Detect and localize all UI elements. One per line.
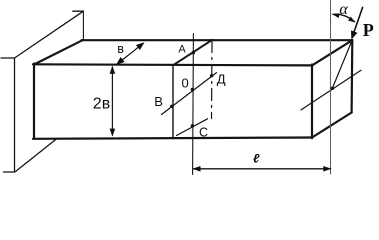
arrowhead 2b top	[110, 66, 116, 74]
angle alpha arc	[333, 14, 355, 21]
svg-text:ℓ: ℓ	[253, 151, 260, 165]
section back hidden edge (dash-dot)	[211, 41, 214, 119]
beam front top edge	[33, 64, 312, 65]
section front vertical trace	[172, 65, 174, 138]
beam front left edge	[33, 64, 35, 139]
wall top diagonal	[15, 11, 84, 58]
section vertical axis / left extension line	[192, 34, 195, 175]
point C dot	[191, 124, 194, 127]
wall left vertical	[14, 58, 16, 172]
section bottom diagonal trace	[177, 119, 208, 136]
svg-text:Д: Д	[217, 71, 226, 86]
beam bottom-right diagonal edge	[312, 113, 352, 138]
svg-text:в: в	[117, 42, 124, 56]
centroid dot right face	[331, 87, 334, 90]
arrowhead alpha arc left	[332, 13, 339, 18]
wall top tick	[73, 10, 84, 12]
arrowhead alpha arc right	[348, 17, 355, 23]
dimension l line	[194, 168, 331, 170]
wall top-left tick	[1, 57, 15, 59]
point B dot	[170, 105, 173, 108]
dimension b arrow line (top face)	[118, 44, 144, 64]
arrowhead l left	[193, 166, 201, 172]
beam back top edge	[82, 39, 353, 41]
svg-text:0: 0	[182, 76, 189, 91]
arrowhead l right	[323, 166, 331, 172]
dimension 2b arrow line	[111, 67, 113, 135]
beam back right edge	[351, 40, 354, 112]
force P shaft	[353, 7, 363, 36]
wall back vertical	[82, 11, 84, 39]
wall bottom diagonal	[16, 139, 58, 172]
arrowhead 2b bottom	[110, 129, 116, 137]
right face depth axis	[301, 70, 361, 110]
beam front bottom edge	[33, 138, 312, 139]
beam top-left diagonal edge	[34, 40, 83, 64]
beam front right edge	[311, 65, 313, 139]
svg-text:α: α	[339, 1, 348, 18]
svg-text:Р: Р	[363, 20, 374, 40]
section horizontal axis B-D	[162, 73, 217, 115]
svg-text:2в: 2в	[93, 96, 110, 113]
point A dot	[192, 51, 195, 54]
P line of action to centroid	[332, 41, 352, 89]
svg-text:B: B	[154, 94, 163, 109]
svg-text:C: C	[199, 126, 208, 140]
vertical reference / right extension line	[330, 0, 332, 174]
point D dot	[210, 74, 213, 77]
wall bottom-left tick	[4, 171, 15, 173]
point 0 dot	[191, 88, 194, 91]
arrowhead force P	[351, 30, 357, 39]
beam top-right diagonal edge	[312, 40, 352, 65]
arrowhead b upper	[136, 42, 145, 50]
section top diagonal trace	[174, 40, 213, 65]
svg-text:A: A	[178, 43, 186, 55]
arrowhead b lower	[116, 57, 125, 65]
